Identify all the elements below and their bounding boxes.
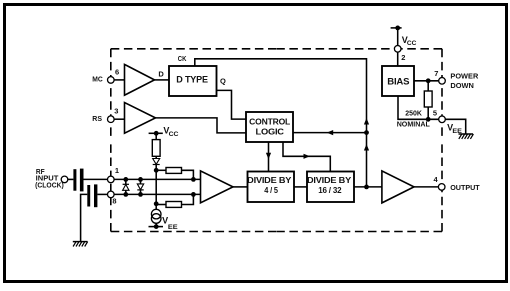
node: bias/R2 tap xyxy=(154,168,159,173)
svg-text:CONTROL: CONTROL xyxy=(249,117,290,127)
svg-text:CC: CC xyxy=(407,40,417,47)
arrow left (into control logic) xyxy=(327,130,334,135)
divide by 16/32 block xyxy=(307,172,354,203)
arrow up (feedback, lower) xyxy=(364,144,369,151)
svg-text:NOMINAL: NOMINAL xyxy=(397,119,430,128)
label: Q xyxy=(220,76,226,85)
label: POWER DOWN xyxy=(450,72,478,90)
svg-text:16 / 32: 16 / 32 xyxy=(318,185,342,195)
D-type flip-flop U1 xyxy=(169,66,217,96)
wire: ground to C2 xyxy=(81,194,88,241)
wire: pin 3 to RS buffer xyxy=(114,118,124,120)
svg-text:8: 8 xyxy=(112,197,116,206)
wire: MC buffer to D TYPE xyxy=(155,79,170,81)
diode D1 (bias diode) xyxy=(153,156,160,164)
svg-text:4 / 5: 4 / 5 xyxy=(264,185,278,195)
wire: CONTROL LOGIC to divide by 4/5 xyxy=(268,142,270,172)
label: CK xyxy=(178,54,187,63)
svg-text:DIVIDE BY: DIVIDE BY xyxy=(247,175,292,185)
label: RF INPUT (CLOCK) xyxy=(35,167,64,189)
node: bias/R3 tap xyxy=(154,201,159,206)
wire: 16/32 to output buffer xyxy=(354,186,382,188)
node: feedback tap on output wire xyxy=(364,185,369,190)
svg-text:MC: MC xyxy=(92,75,103,84)
buffer A2 (RS input buffer) xyxy=(125,103,156,134)
svg-text:5: 5 xyxy=(433,108,437,117)
wire: pin 2 to BIAS xyxy=(397,52,399,66)
svg-text:LOGIC: LOGIC xyxy=(256,127,284,137)
pin 8 (input) xyxy=(108,191,117,206)
ground (bottom left, hatched) xyxy=(73,242,88,247)
arrow right (control to 16/32) xyxy=(304,154,311,159)
resistor R1 (bias resistor) xyxy=(152,133,160,156)
svg-text:POWER: POWER xyxy=(450,72,478,81)
wire: C2 to pin 8 xyxy=(97,193,110,195)
wire: 4/5 to 16/32 xyxy=(294,186,307,188)
pin 3 (RS) xyxy=(108,107,119,123)
wire: pin 6 to MC buffer xyxy=(114,79,124,81)
node: R 250K / VEE rail junction xyxy=(426,117,431,122)
wire: amp to divide by 4/5 xyxy=(233,186,248,188)
wire: bias column xyxy=(155,165,157,210)
IC boundary (dashed package outline) xyxy=(111,49,442,232)
VCC supply symbol (top) xyxy=(391,26,417,48)
svg-text:1: 1 xyxy=(115,166,119,175)
wire: input rail top (pin 1 to amp) xyxy=(114,178,200,180)
pin 4 (OUTPUT) xyxy=(434,175,446,190)
svg-text:2: 2 xyxy=(401,53,405,62)
VEE supply symbol (bottom) xyxy=(149,216,179,232)
node: R3/rail junction xyxy=(191,192,196,197)
amplifier A3 (input amp) xyxy=(201,171,234,203)
arrow down (control to 4/5) xyxy=(266,153,271,160)
svg-text:CC: CC xyxy=(169,131,179,138)
wire: output buffer to pin 4 xyxy=(414,186,442,188)
diode D2 (left clamp) xyxy=(123,177,129,197)
diode D3 (right clamp) xyxy=(137,177,143,197)
current source I1 xyxy=(151,209,161,226)
node: feedback/control junction xyxy=(364,130,369,135)
svg-text:7: 7 xyxy=(434,69,438,78)
svg-text:6: 6 xyxy=(115,68,119,77)
svg-text:DIVIDE BY: DIVIDE BY xyxy=(307,175,352,185)
wire: BIAS bottom to pin 5 xyxy=(398,96,442,119)
wire: terminal to C1 xyxy=(68,178,74,180)
feedback column continued with arrows xyxy=(366,115,368,187)
svg-text:BIAS: BIAS xyxy=(387,77,409,87)
buffer A1 (MC input buffer) xyxy=(125,64,155,95)
wire: CONTROL LOGIC to divide by 16/32 xyxy=(283,142,330,172)
RF input terminal xyxy=(61,176,68,183)
label: RS input xyxy=(92,114,102,123)
pin 7 (POWER DOWN) xyxy=(434,69,445,84)
buffer A4 (output buffer) xyxy=(382,171,414,203)
wire: VCC to pin 2 xyxy=(397,28,399,49)
pin 5 (VEE) xyxy=(433,108,445,122)
pin 2 (VCC) xyxy=(394,46,405,63)
pin 6 (MC) xyxy=(108,68,120,84)
wire: RS buffer to CONTROL LOGIC xyxy=(156,118,247,133)
node: R2/rail junction xyxy=(191,177,196,182)
wire: C1 to pin 1 xyxy=(84,178,111,180)
svg-text:(CLOCK): (CLOCK) xyxy=(35,180,64,189)
control logic block xyxy=(246,112,293,142)
wire: input rail bottom (pin 8 to amp) xyxy=(114,193,200,195)
svg-text:RS: RS xyxy=(92,114,102,123)
wire: feedback to CONTROL LOGIC input xyxy=(293,132,367,134)
svg-text:250K: 250K xyxy=(405,109,422,118)
svg-text:D: D xyxy=(158,69,164,78)
svg-text:EE: EE xyxy=(168,224,179,231)
capacitor C1 (top coupling cap) xyxy=(73,169,83,192)
pin 1 (input) xyxy=(108,166,120,183)
svg-text:DOWN: DOWN xyxy=(450,81,474,90)
ground (right, hatched) xyxy=(459,134,474,139)
VCC supply symbol (middle) xyxy=(149,126,179,138)
wire: Q output to CONTROL LOGIC xyxy=(217,90,247,119)
wire: pin 5 to VEE ground xyxy=(445,119,465,133)
label: VEE (right) xyxy=(447,122,463,135)
label: MC input xyxy=(92,75,103,84)
resistor 250K nominal xyxy=(397,81,432,129)
svg-text:3: 3 xyxy=(114,107,118,116)
divide by 4/5 block xyxy=(247,172,294,203)
svg-text:Q: Q xyxy=(220,76,226,85)
label: OUTPUT xyxy=(450,183,480,192)
bias block xyxy=(382,66,414,96)
resistor R2 (top feedback) with loop xyxy=(156,168,193,180)
svg-text:OUTPUT: OUTPUT xyxy=(450,183,480,192)
resistor R3 (bottom feedback) with loop xyxy=(156,194,193,207)
arrow up (feedback to CK, upper) xyxy=(364,118,369,125)
capacitor C2 (bottom coupling cap) xyxy=(87,184,97,207)
label: D xyxy=(158,69,164,78)
wire: BIAS output to pin 7 xyxy=(414,80,442,82)
svg-text:D TYPE: D TYPE xyxy=(176,75,208,85)
node: BIAS/R 250K junction xyxy=(426,78,431,83)
svg-text:CK: CK xyxy=(178,54,187,63)
wire: CK clock line (D TYPE top to feedback column) xyxy=(195,59,367,115)
